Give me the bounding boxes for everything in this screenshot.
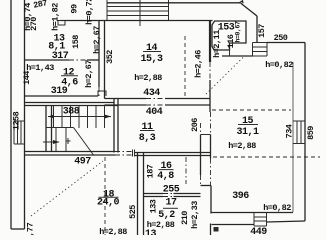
- wall A stairs bottom outer: [25, 151, 133, 153]
- room 15 left lower wall x212: [210, 186, 212, 214]
- svg-text:31,1: 31,1: [236, 127, 259, 138]
- wall room14/15 thick top: [209, 21, 211, 63]
- room 15 fraction bar: [238, 124, 258, 126]
- svg-text:h=0,67: h=0,67: [235, 21, 242, 43]
- svg-text:317: 317: [52, 51, 69, 62]
- svg-text:15: 15: [242, 116, 254, 127]
- door jamb room13 niche: [58, 21, 65, 26]
- wall room11 top inner: [105, 104, 211, 106]
- svg-text:h=0,82: h=0,82: [265, 60, 293, 70]
- svg-text:h=2,11: h=2,11: [212, 30, 222, 58]
- svg-text:17: 17: [165, 198, 177, 209]
- wire notch tick under balcony: [229, 50, 231, 56]
- top right entry steps: [253, 43, 268, 57]
- room 14 fraction bar: [143, 51, 161, 53]
- wall right outer x305: [304, 43, 306, 222]
- svg-text:8,3: 8,3: [139, 133, 156, 144]
- svg-text:1258: 1258: [11, 111, 21, 130]
- wall left face dash above cap: [200, 123, 202, 135]
- svg-text:h=2,33: h=2,33: [190, 201, 200, 229]
- room 11 fraction bar: [140, 130, 155, 132]
- wall room11 top outer: [105, 98, 211, 100]
- wall A stairs bottom inner: [25, 154, 133, 156]
- svg-text:210: 210: [180, 211, 190, 225]
- svg-text:859: 859: [306, 126, 316, 140]
- room 15 bottom outer wall left: [212, 224, 255, 226]
- wall room11 left outer: [113, 98, 115, 153]
- wall room16/17 divider inner: [144, 196, 201, 198]
- wall room14 left inner line: [104, 20, 106, 99]
- svg-text:206: 206: [190, 118, 200, 132]
- window in right wall: [293, 121, 305, 144]
- stair landing line: [46, 127, 74, 129]
- svg-text:404: 404: [146, 107, 163, 118]
- room 18 dotted diagonal: [31, 161, 103, 216]
- main stair upper treads: [54, 106, 105, 129]
- wall B room11 bottom outer: [135, 152, 211, 154]
- svg-text:h=2,46: h=2,46: [193, 50, 203, 78]
- svg-text:158: 158: [71, 35, 81, 49]
- wall B room11 bottom inner: [135, 155, 211, 157]
- room 18 dashed zone line: [104, 157, 106, 235]
- svg-text:14: 14: [146, 43, 158, 54]
- svg-text:h=2,88: h=2,88: [134, 73, 162, 83]
- wall room14 left outer line: [98, 20, 100, 99]
- roof diagonal: [241, 3, 258, 16]
- svg-text:187: 187: [145, 164, 155, 178]
- upper stair flight to attic: [107, 0, 169, 26]
- room 12 fraction bar: [61, 75, 78, 77]
- wall stairs top: [25, 103, 119, 106]
- svg-text:255: 255: [163, 185, 180, 196]
- roof peak tick: [239, 1, 243, 3]
- svg-text:144: 144: [22, 71, 32, 85]
- wire left wall bottom cap: [11, 228, 25, 230]
- wall tick y134.5: [201, 134, 211, 136]
- svg-text:h=0,82: h=0,82: [263, 203, 291, 213]
- stair direction arrow upper: [48, 115, 111, 119]
- wall rooms16-17 left inner: [143, 153, 145, 236]
- svg-text:525: 525: [128, 205, 138, 219]
- svg-text:4,77: 4,77: [25, 222, 35, 235]
- eave line top: [107, 2, 240, 4]
- svg-text:h=2,88: h=2,88: [99, 227, 127, 235]
- stair direction arrow lower: [43, 138, 71, 144]
- closet dashed line room16: [185, 157, 187, 184]
- bottom left pillar: [214, 227, 219, 232]
- svg-text:319: 319: [51, 86, 68, 97]
- wall top of room14: [99, 20, 213, 22]
- wire corner lower left of room15: [210, 224, 212, 236]
- room 16 fraction bar: [159, 169, 174, 171]
- wire left outer wall inner line: [24, 0, 26, 229]
- stair lower treads: [56, 128, 66, 152]
- svg-text:11: 11: [141, 122, 153, 133]
- svg-text:449: 449: [250, 227, 267, 235]
- wire left outer wall outer line: [10, 0, 12, 229]
- room 17 fraction bar: [163, 207, 178, 209]
- room 12 bottom wall: [25, 95, 99, 97]
- svg-text:24,0: 24,0: [97, 198, 120, 209]
- wall room13/room12 divider: [25, 59, 100, 61]
- svg-text:h=1,82: h=1,82: [50, 3, 60, 31]
- wall top right y42.5: [267, 42, 305, 44]
- svg-text:352: 352: [105, 50, 115, 64]
- svg-text:250: 250: [274, 33, 288, 43]
- svg-text:133: 133: [148, 199, 158, 213]
- entry steps in left wall: [14, 121, 25, 144]
- svg-text:h=0,72: h=0,72: [84, 0, 94, 25]
- svg-text:497: 497: [74, 157, 91, 168]
- room 15 dashed zone line upper: [212, 109, 291, 111]
- svg-text:4,8: 4,8: [157, 171, 174, 182]
- dotted roof diagonal room15: [206, 57, 244, 95]
- wall rooms16-17 left outer: [137, 153, 139, 236]
- wall room16/17 divider outer: [144, 193, 201, 195]
- room 14 dashed zone line: [184, 36, 186, 98]
- svg-text:99: 99: [69, 4, 79, 14]
- door box wallA: [133, 150, 135, 157]
- stair break diagonal: [74, 128, 94, 156]
- svg-text:h=2,67: h=2,67: [92, 26, 102, 54]
- room 15 bottom inner wall: [212, 212, 294, 214]
- room 15 dashed zone line lower: [213, 156, 320, 158]
- wall room15 left face lower: [200, 135, 202, 186]
- room 13 niche line: [60, 20, 99, 22]
- svg-text:388: 388: [63, 107, 80, 118]
- wall room11 left inner: [117, 98, 119, 153]
- svg-text:13: 13: [145, 229, 157, 235]
- main stair left wall: [45, 106, 47, 152]
- svg-text:396: 396: [232, 191, 249, 202]
- svg-text:h=2,88: h=2,88: [228, 141, 256, 151]
- wall right inner x293: [292, 62, 294, 212]
- room 18 fraction bar: [99, 196, 119, 198]
- wall right of bay x257: [256, 16, 258, 43]
- balcony 153 block outline: [212, 21, 246, 50]
- wall north of room15: [222, 55, 253, 57]
- svg-text:h=2,67: h=2,67: [84, 60, 94, 88]
- svg-text:157: 157: [257, 24, 267, 38]
- svg-text:434: 434: [143, 88, 160, 99]
- wall room14/15 right face segments: [209, 62, 212, 186]
- svg-text:15,3: 15,3: [140, 54, 163, 65]
- svg-text:734: 734: [284, 124, 294, 138]
- svg-text:270: 270: [29, 17, 39, 31]
- room 15 step corner wall: [201, 185, 212, 187]
- bottom exit steps: [254, 212, 267, 226]
- room 15 bottom outer wall right: [267, 221, 306, 222]
